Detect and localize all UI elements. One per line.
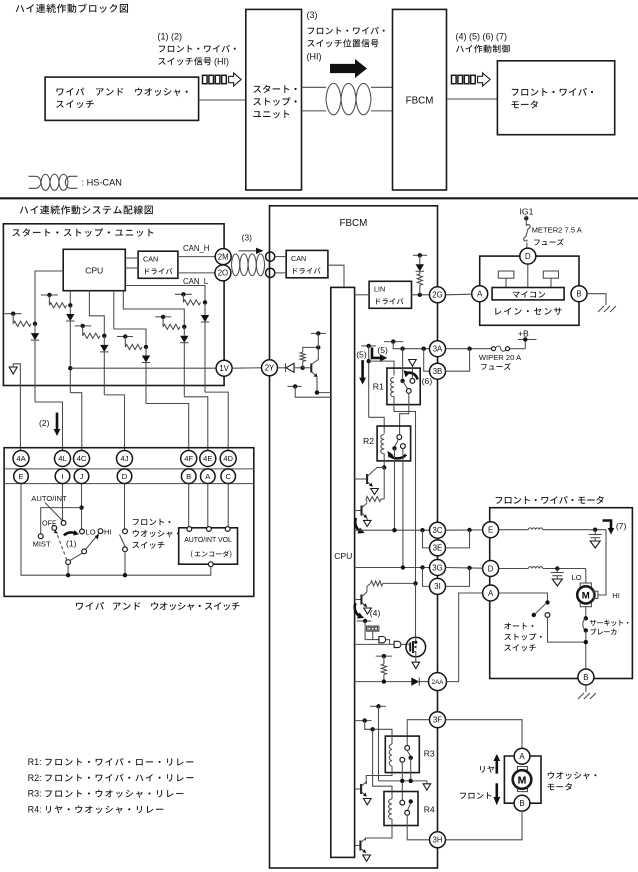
wire CPU pin to column F — [123, 291, 184, 327]
svg-text:D: D — [488, 564, 494, 573]
wire D to microcomputer — [527, 264, 529, 287]
svg-text:A: A — [477, 290, 483, 299]
wire R1 NO down — [400, 393, 409, 435]
label front wiper motor — [496, 496, 604, 504]
pin 2G — [430, 287, 446, 303]
transistor Q2 — [355, 510, 362, 512]
svg-text:4C: 4C — [77, 454, 87, 463]
stub supply 3A — [384, 341, 403, 343]
contact OFF — [52, 526, 57, 531]
connector strip lines — [4, 468, 254, 470]
diode D-2AA — [411, 678, 419, 686]
box front wiper motor (block) — [497, 61, 614, 135]
stub supply E — [117, 336, 133, 338]
pin B (motor) — [578, 669, 594, 685]
motor M (wiper) — [580, 583, 591, 587]
contact VOL-2 — [207, 527, 212, 532]
relay R3 pivot — [409, 756, 413, 760]
svg-text:4A: 4A — [16, 454, 26, 463]
box wiper and washer switch — [4, 448, 254, 597]
box wiper and washer switch — [45, 77, 199, 120]
node 3A-3B — [422, 347, 426, 351]
stub supply C — [41, 294, 58, 296]
svg-text:3B: 3B — [433, 367, 443, 376]
pin 3I — [430, 578, 446, 594]
wire stub G down — [182, 294, 184, 302]
wire 3F to washer A — [446, 720, 523, 749]
pin 4A — [13, 451, 29, 467]
wire LIN to 2G — [412, 294, 430, 296]
svg-text:FBCM: FBCM — [406, 96, 434, 107]
relay R2 blade — [395, 439, 399, 446]
relay R1 pivot — [400, 379, 404, 383]
resistor RF — [163, 324, 180, 329]
open arrow into R1 — [411, 367, 413, 379]
transistor Q-2Y — [310, 363, 312, 372]
caption wiper and washer switch — [76, 602, 104, 610]
wire 3E outer loop — [446, 530, 470, 548]
node 3A-R1 — [400, 347, 404, 351]
wire auto-stop return — [548, 617, 586, 642]
transistor Q3 — [355, 599, 362, 601]
wire A to auto-stop — [499, 593, 548, 600]
svg-text:(3): (3) — [242, 233, 253, 243]
wire stub B down — [12, 314, 14, 324]
svg-text:CAN: CAN — [143, 255, 158, 264]
pin E (motor) — [483, 522, 499, 538]
node breaker return — [584, 640, 588, 644]
IC CPU (FBCM) — [331, 287, 355, 857]
pin D (switch) — [117, 469, 132, 484]
signal arrow 1 (squares) — [203, 75, 208, 83]
divider line — [0, 197, 638, 199]
svg-text:2G: 2G — [432, 291, 442, 300]
pin 3A — [430, 341, 446, 357]
title block diagram — [16, 4, 128, 13]
IC CPU (start-stop) — [63, 249, 125, 290]
bus relay contacts — [379, 780, 427, 782]
box rain sensor — [480, 256, 579, 325]
label front arrow — [460, 792, 491, 799]
auto-stop arm end — [532, 613, 536, 617]
svg-text:4F: 4F — [184, 454, 193, 463]
svg-text:HI: HI — [612, 591, 620, 600]
diode D-2G — [416, 264, 424, 271]
pin J (switch) — [74, 469, 89, 484]
inductor L-E — [499, 529, 529, 531]
node 2Y base — [301, 366, 305, 370]
stub supply F — [155, 316, 171, 318]
node 3C-3E — [420, 528, 424, 532]
relay R1 contact NC — [410, 379, 415, 384]
svg-text:4J: 4J — [120, 454, 128, 463]
pin D (motor) — [483, 561, 499, 577]
relay R2 coil — [381, 435, 384, 454]
node R4 feed — [370, 727, 374, 731]
bus 3G — [355, 567, 430, 569]
contact washer bottom — [123, 547, 128, 552]
node R-FET 2AA — [382, 679, 386, 683]
wire CPU to CAN driver — [125, 257, 138, 259]
stub supply R34 b — [355, 720, 372, 722]
node R2-Q1 — [382, 465, 386, 469]
leader AUTO/INT — [45, 503, 63, 522]
resistor R-FET — [383, 656, 385, 664]
relay R4 contact 2 — [405, 810, 410, 815]
contact VOL-out — [208, 562, 213, 567]
svg-text:2AA: 2AA — [432, 679, 445, 686]
svg-text:AUTO/INT: AUTO/INT — [31, 494, 67, 503]
node Q-2Y emitter — [315, 390, 319, 394]
wire CPU pin to column C — [69, 291, 71, 306]
pin B (switch) — [181, 469, 196, 484]
resistor RE — [125, 344, 142, 349]
pin D (rain sensor) — [520, 248, 536, 264]
pin 4E — [200, 451, 216, 467]
contact washer top — [123, 529, 128, 534]
svg-text:(5): (5) — [377, 345, 388, 355]
relay R3 contact top — [405, 746, 410, 751]
arrow Q2 swoosh — [355, 518, 360, 532]
svg-text:(6): (6) — [422, 376, 433, 386]
wire stub F down — [162, 317, 164, 327]
pin C (switch) — [221, 469, 236, 484]
svg-text:(1) (2): (1) (2) — [158, 32, 183, 42]
pin 3H — [430, 832, 446, 848]
wire breaker to B — [585, 631, 587, 670]
svg-text:(1): (1) — [66, 538, 77, 548]
wire Q2 collector — [366, 499, 367, 503]
label front washer switch — [133, 519, 170, 526]
bus 3C — [355, 529, 430, 531]
wire E jog to 4F — [146, 404, 189, 451]
svg-text:: HS-CAN: : HS-CAN — [82, 178, 122, 188]
transistor Q6 — [355, 845, 361, 847]
bold arrow (7) — [603, 521, 612, 530]
legend HS-CAN symbol — [29, 176, 41, 188]
label auto-stop switch — [504, 623, 533, 630]
wire R3 coil to Q5 — [366, 773, 392, 785]
svg-text:): ) — [230, 551, 232, 558]
bus 2AA — [355, 681, 412, 683]
stub supply 2G — [413, 254, 427, 256]
pin B (washer) — [514, 795, 530, 811]
inductor L-D — [499, 568, 529, 570]
wire J down — [81, 484, 83, 530]
svg-text:B: B — [576, 290, 581, 299]
svg-text:LO: LO — [572, 573, 582, 582]
relay R1 coil — [391, 378, 394, 397]
wire D to washer switch — [124, 484, 126, 529]
wire gate2 to FET — [402, 643, 408, 645]
wire 3F to R3 — [407, 720, 429, 746]
sensor element 2 — [543, 271, 558, 278]
switch arm solid to HI — [70, 553, 83, 561]
svg-text:(2): (2) — [39, 418, 50, 428]
wire 3A to fuse — [446, 348, 492, 350]
pin 3C — [430, 522, 446, 538]
pin 4C — [74, 451, 90, 467]
svg-text:R1:: R1: — [28, 757, 42, 767]
diode D-2Y — [285, 363, 287, 372]
sensor element 1 — [498, 271, 514, 278]
svg-text:CAN_L: CAN_L — [183, 277, 209, 286]
svg-text:3E: 3E — [433, 544, 443, 553]
pin 3B — [430, 363, 446, 379]
svg-text:2Y: 2Y — [265, 364, 275, 373]
svg-text:(4) (5) (6) (7): (4) (5) (6) (7) — [456, 32, 508, 42]
svg-text:3A: 3A — [433, 345, 443, 354]
capacitor D to ground — [556, 569, 558, 573]
auto-stop blade — [536, 604, 546, 614]
arm arrowhead — [95, 535, 99, 540]
svg-text:4L: 4L — [58, 454, 66, 463]
signal arrow 2 (squares) — [452, 75, 457, 83]
wire 1V line — [70, 367, 216, 369]
wire A to VOL — [207, 484, 209, 527]
svg-text:C: C — [225, 472, 231, 481]
rotation arrow (1) — [64, 532, 76, 535]
motor M (washer) — [518, 767, 528, 771]
svg-text:CAN: CAN — [291, 254, 306, 263]
label washer motor — [548, 772, 597, 780]
relay R3 blade — [407, 750, 411, 756]
pin 4J — [117, 451, 133, 467]
wire CPU pin to column D — [89, 291, 104, 336]
svg-text:2O: 2O — [218, 269, 228, 278]
svg-text:LIN: LIN — [374, 285, 385, 294]
relay R4 blade — [408, 804, 411, 811]
stub supply G — [175, 293, 192, 295]
svg-text:3F: 3F — [433, 716, 442, 725]
stub supply B — [5, 313, 22, 315]
svg-text:3I: 3I — [434, 582, 441, 591]
relay R1 blade — [403, 381, 408, 389]
relay R2 box — [377, 426, 411, 461]
svg-text:+B: +B — [518, 329, 529, 339]
circuit breaker — [584, 616, 588, 620]
wire washer B to 3H — [446, 811, 523, 840]
pin 2AA — [429, 673, 447, 691]
node E noise cap — [593, 528, 597, 532]
transistor Q5 — [355, 788, 361, 790]
pin A (washer) — [514, 748, 530, 764]
svg-text:AUTO/INT VOL: AUTO/INT VOL — [184, 537, 232, 544]
wire 3G to D — [446, 567, 483, 570]
wire pivot to bus — [67, 564, 69, 575]
relay R3 box — [385, 736, 419, 773]
IC comparator box — [367, 626, 379, 631]
pin 4D — [220, 451, 236, 467]
pin E (switch) — [14, 469, 29, 484]
svg-text:A: A — [488, 589, 494, 598]
wire 3B outer loop — [446, 349, 470, 372]
svg-text:(HI): (HI) — [214, 57, 229, 67]
svg-text:HI: HI — [104, 528, 112, 537]
ground bus switch box — [21, 484, 211, 576]
svg-text:LO: LO — [86, 528, 96, 537]
pin 4F — [181, 451, 197, 467]
svg-text:3H: 3H — [433, 836, 443, 845]
wire box to gate1 — [372, 631, 374, 639]
wire CPU to LIN — [355, 294, 370, 296]
auto-stop contact — [545, 613, 550, 618]
box FBCM (block) — [393, 9, 447, 190]
svg-text:4E: 4E — [203, 454, 212, 463]
svg-text:IG1: IG1 — [520, 207, 534, 217]
node 3I outer — [467, 566, 471, 570]
wire gate1 to gate2 — [386, 640, 389, 645]
label rear arrow — [480, 766, 494, 773]
solid arrow (3) — [330, 59, 367, 78]
svg-text:E: E — [18, 472, 23, 481]
wire to 4A — [13, 364, 20, 451]
svg-text:R2:: R2: — [28, 773, 42, 783]
resistor RD — [83, 333, 100, 338]
svg-text:M: M — [582, 590, 590, 601]
wire B to ground — [587, 294, 606, 305]
stub supply R34 a — [370, 705, 386, 707]
capacitor E to ground — [594, 530, 596, 535]
node 3G-3I — [420, 565, 424, 569]
svg-text:FBCM: FBCM — [340, 218, 368, 229]
svg-text:A: A — [519, 752, 525, 761]
wire fuse to D — [526, 243, 528, 249]
twisted pair start-stop to FBCM — [302, 86, 327, 88]
wire R2 pivot to 3C bus — [394, 448, 396, 530]
wire B to VOL — [188, 484, 190, 527]
fuse WIPER 20A — [492, 347, 496, 351]
svg-text:4D: 4D — [223, 454, 233, 463]
wire F jog to 4E — [184, 397, 208, 451]
pin 3E — [430, 540, 446, 556]
svg-text:B: B — [519, 799, 524, 808]
wire 1V to 2Y — [232, 367, 261, 369]
svg-text:R4: R4 — [424, 805, 435, 815]
wire I to AUTO/INT contact — [62, 484, 64, 521]
svg-text:I: I — [61, 472, 63, 481]
node 2Y collector — [316, 345, 320, 349]
svg-text:R3: R3 — [424, 749, 435, 759]
contact LO — [80, 529, 85, 534]
relay R4 coil — [389, 799, 392, 819]
box microcomputer — [492, 288, 564, 300]
wire 3I inner loop — [423, 568, 430, 587]
pin 2Y — [262, 360, 278, 376]
emitter arrow Q1 open — [371, 489, 379, 495]
node fuse-3B — [467, 347, 471, 351]
arrow R2 swoosh — [389, 455, 406, 459]
relay R1 contact NO — [406, 389, 411, 394]
IC CAN driver (FBCM) — [286, 250, 328, 277]
box FBCM — [270, 206, 438, 868]
svg-text:WIPER 20 A: WIPER 20 A — [479, 353, 522, 362]
svg-text:2M: 2M — [218, 252, 229, 261]
pin 2M — [215, 249, 231, 265]
node bus c2 — [409, 779, 413, 783]
svg-text:E: E — [488, 526, 493, 535]
resistor RG — [183, 300, 200, 305]
fuse METER2 — [524, 225, 530, 241]
wire R1 coil feed — [368, 346, 370, 417]
svg-text:R1: R1 — [373, 382, 384, 392]
svg-text:CAN_H: CAN_H — [183, 244, 209, 253]
svg-text:(HI): (HI) — [307, 52, 322, 62]
wire CAN driver to CPU — [328, 265, 344, 287]
open arrow relay bus — [426, 781, 428, 784]
wire 3I outer loop — [446, 568, 470, 587]
svg-text:B: B — [186, 472, 191, 481]
pin A (switch) — [201, 469, 216, 484]
node 3E outer — [467, 528, 471, 532]
diode DB — [34, 324, 36, 333]
emitter arrow Q6 open — [363, 855, 371, 861]
pin 4L — [55, 451, 71, 467]
twisted pair 2M/2O to FBCM — [232, 254, 240, 276]
svg-text:M: M — [518, 774, 527, 786]
emitter arrow Q5 open — [364, 799, 372, 805]
svg-text:J: J — [80, 472, 84, 481]
wire R3 contacts down — [401, 762, 403, 800]
resistor R-2G — [417, 274, 422, 285]
wire 3E inner loop — [423, 530, 430, 548]
node G — [203, 300, 207, 304]
pin 2O — [215, 265, 231, 281]
wire CAN_H — [178, 256, 215, 258]
svg-text:R4:: R4: — [28, 804, 42, 814]
wire CPU pin to column E — [114, 291, 146, 347]
diode DE — [145, 347, 147, 356]
pin 3G — [430, 560, 446, 576]
resistor RB — [13, 321, 31, 326]
wire 2Y to diode — [278, 367, 286, 369]
node J-MIST — [79, 505, 83, 509]
relay R2 contact top — [397, 435, 402, 440]
wire CAN_L — [178, 272, 215, 274]
svg-text:CPU: CPU — [85, 266, 103, 276]
pin 1V — [216, 360, 232, 376]
washer switch blade — [120, 535, 126, 548]
svg-text:METER2 7.5 A: METER2 7.5 A — [532, 226, 583, 235]
svg-text:(4): (4) — [370, 608, 381, 618]
wire R4 coil feed — [373, 729, 392, 791]
box start-stop unit — [3, 224, 224, 386]
arrow Q3 swoosh (4) — [355, 603, 360, 617]
stub supply D — [75, 325, 92, 327]
wire bubbles to CAN driver — [275, 256, 286, 258]
pin A (rain sensor) — [472, 286, 488, 302]
node bus c1 — [400, 779, 404, 783]
resistor RC — [49, 303, 66, 308]
box front wiper motor — [490, 508, 633, 679]
wire R2 to resistor — [383, 468, 385, 497]
svg-text:B: B — [583, 673, 588, 682]
wire FET drain — [415, 583, 417, 637]
contact MIST — [38, 534, 43, 539]
svg-text:3C: 3C — [433, 526, 443, 535]
contact VOL-1 — [187, 527, 192, 532]
FET Q4 — [406, 637, 426, 657]
diode DG — [204, 302, 206, 315]
svg-text:R2: R2 — [363, 436, 374, 446]
relay R3 coil — [389, 744, 392, 766]
stub supply 2Y — [311, 332, 326, 334]
wire 2AA to motor A — [447, 593, 483, 682]
node bus pivot — [66, 573, 70, 577]
wire Q3 collector resistor — [367, 583, 371, 592]
wire R1 common to 3A — [402, 349, 404, 379]
pin 3F — [430, 712, 446, 728]
